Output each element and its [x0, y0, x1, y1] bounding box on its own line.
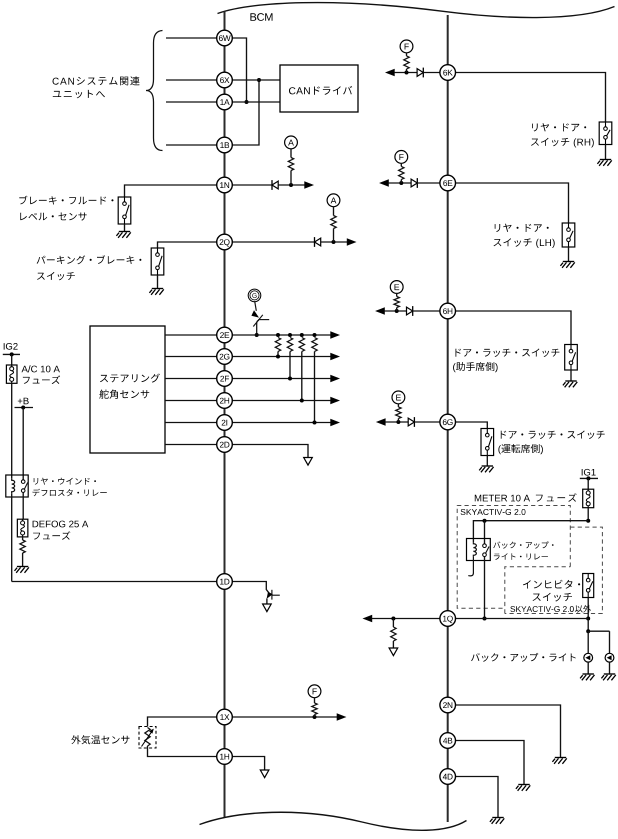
- resistor to F (1X row): [312, 703, 317, 715]
- ground under backup light 2: [601, 674, 615, 680]
- wire 1D out right: [232, 582, 270, 595]
- wire A to resistor 2Q: [333, 206, 335, 215]
- ground under 4D: [490, 818, 504, 824]
- junction 6K row: [405, 71, 409, 75]
- wire sensor to ground: [124, 224, 126, 232]
- junction backup relay switch feed: [483, 519, 487, 523]
- dashed box SKYACTIV-G 2.0 other: [505, 527, 603, 613]
- wire METER fuse to junction: [587, 508, 589, 521]
- label steering line1: [100, 374, 160, 383]
- wire arrow to diode 6E: [388, 182, 411, 184]
- open arrow 1D: [263, 604, 272, 612]
- wire resistor to 6K row: [406, 69, 408, 73]
- wire arrow to diode 6H: [384, 310, 406, 312]
- junction inhibitor/1Q row: [586, 617, 590, 621]
- label A/C fuse line1: [22, 365, 60, 372]
- pin 1N: [217, 177, 233, 193]
- rear window defroster relay box: [6, 475, 28, 497]
- wire steering sensor to 2E: [165, 334, 217, 336]
- wire 1Q net down: [587, 619, 589, 632]
- connector A (2Q row): [327, 194, 340, 207]
- ground under defogger: [15, 567, 29, 573]
- arrow out 2G row: [331, 353, 340, 360]
- pin 1Q: [440, 611, 456, 627]
- label rear door LH line2: [494, 238, 555, 248]
- wire arrow to diode 6G: [385, 421, 408, 423]
- wire diode to arrow 1N row: [278, 184, 304, 186]
- wire resistor to 6E row: [400, 180, 402, 184]
- junction relay/1Q row: [483, 617, 487, 621]
- wire: BCM right bus: [447, 15, 449, 822]
- pin 6K: [440, 65, 456, 81]
- arrow out 2F row: [331, 375, 340, 382]
- connector F (6E row): [395, 151, 408, 164]
- pin 2D: [217, 437, 233, 453]
- wire 2D row out: [232, 445, 308, 458]
- label brake fluid line2: [20, 213, 87, 221]
- wire switch to ground: [157, 275, 159, 289]
- arrow out 2Q row: [347, 239, 356, 246]
- junction 6W/1A: [245, 100, 249, 104]
- wire E to resistor 6G: [397, 404, 399, 407]
- junction IG1: [586, 476, 590, 480]
- pin 4D: [440, 769, 456, 785]
- wire G tail: [255, 302, 256, 311]
- resistor to F (6E row): [399, 166, 404, 179]
- connector A (1N row): [285, 136, 298, 149]
- backup light bulb 1: [584, 653, 593, 662]
- label rear door RH line1: [532, 123, 586, 131]
- wire 1A to CAN units (left): [166, 101, 217, 103]
- wire 2Q to parking brake switch: [158, 242, 217, 248]
- wire E to resistor 6H: [396, 293, 398, 296]
- wire grid to ground: [22, 553, 24, 567]
- wire: BCM left bus: [224, 12, 226, 819]
- relay blade (defroster): [24, 482, 28, 489]
- pin 1H: [217, 749, 233, 765]
- resistor to connector A (2Q row): [331, 216, 336, 229]
- open arrow 1H: [260, 770, 269, 778]
- wire F to resistor 6K: [406, 53, 408, 56]
- resistor to E (6G row): [396, 407, 401, 419]
- ground under rear door switch LH: [560, 262, 574, 268]
- relay contact bottom (defroster): [21, 489, 25, 493]
- pin 4B: [440, 733, 456, 749]
- diode D (6E row): [411, 178, 417, 188]
- wire: BCM bottom torn edge: [200, 812, 467, 830]
- junction 1X row: [313, 715, 317, 719]
- ground under door latch switch (driver): [479, 466, 493, 472]
- wire relay coil to 1D row: [11, 493, 13, 581]
- wire resistor to open arrow 1Q: [392, 641, 394, 648]
- node IG1 tick: [580, 477, 598, 479]
- wire resistor to 2Q row: [333, 229, 335, 243]
- dashed box SKYACTIV-G 2.0: [457, 506, 570, 609]
- wire 6E to rear door switch LH: [456, 183, 569, 223]
- junction 2E/resistor2: [288, 333, 292, 337]
- parking brake switch: [151, 248, 164, 275]
- CAN driver box U1: [280, 65, 358, 112]
- junction 1Q left branch: [391, 617, 395, 621]
- junction 2E/resistor1: [276, 333, 280, 337]
- resistor to F (6K row): [404, 56, 409, 69]
- label +B: [18, 398, 29, 405]
- junction 2E/resistor3: [300, 333, 304, 337]
- wire 1B to 6X net: [232, 80, 259, 145]
- brake fluid level sensor switch: [118, 197, 131, 224]
- junction +B: [21, 406, 25, 410]
- wire A to resistor: [290, 149, 292, 158]
- pin 6G: [440, 414, 456, 430]
- joint tick 1D: [271, 590, 273, 600]
- relay coil (defroster): [12, 479, 15, 494]
- wire F to resistor 1X: [314, 697, 316, 703]
- label rear door LH line1: [495, 224, 549, 232]
- resistor R1 (2E ladder): [275, 338, 280, 352]
- resistor R3 (2E ladder): [299, 338, 304, 352]
- junction 2Q row: [332, 240, 336, 244]
- wire bulb 2 to ground: [609, 662, 611, 674]
- wire inhibitor to 1Q row: [587, 598, 589, 619]
- label A/C fuse line2: [23, 375, 60, 384]
- resistor R2 (2E ladder): [287, 338, 292, 352]
- connector E (6H row): [390, 281, 403, 294]
- wire 1N to diode: [232, 184, 272, 186]
- resistor: defogger grid: [20, 540, 25, 553]
- diode D (6K row): [417, 68, 423, 78]
- wire 1B to CAN units (left): [166, 144, 217, 146]
- connector F (6K row): [400, 40, 413, 53]
- joint stub 1D: [272, 594, 280, 596]
- label rear door RH line2: [531, 138, 594, 148]
- wire diode to arrow 2Q row: [321, 241, 347, 243]
- arrow out 1N row: [305, 182, 314, 189]
- rear door switch LH: [562, 223, 575, 247]
- label parking brake line1: [37, 255, 142, 264]
- junction 2E/resistor4: [313, 333, 317, 337]
- diode D1 (1N row): [272, 180, 278, 190]
- node +B tick: [15, 407, 34, 409]
- ambient temperature sensor box: [139, 727, 156, 749]
- resistor to connector A (1N row): [288, 158, 293, 171]
- wire 6W to CAN units (left): [166, 37, 217, 39]
- label steering line2: [99, 390, 149, 399]
- wire 2E row out: [232, 334, 330, 336]
- relay contact top (backup): [483, 544, 487, 548]
- open arrow 2D: [304, 458, 313, 466]
- wire resistor R4 to 2I: [314, 352, 316, 423]
- wire relay switch to DEFOG fuse: [22, 492, 24, 521]
- wire 2H row out: [232, 400, 330, 402]
- pin 2Q: [217, 234, 233, 250]
- fuse A/C 10A: [6, 365, 17, 383]
- relay contact top (defroster): [21, 480, 25, 484]
- wire 4D to ground: [456, 777, 499, 818]
- junction G/2E: [255, 333, 259, 337]
- arrowhead G joint: [251, 310, 259, 317]
- BCM label: [250, 13, 272, 21]
- label METER fuse: [475, 493, 577, 502]
- wire arrow to diode 6K: [394, 72, 417, 74]
- pin 1B: [217, 137, 233, 153]
- pin 2F: [217, 371, 233, 387]
- junction 1N row: [289, 183, 293, 187]
- pin 6W: [217, 30, 233, 46]
- wire to backup light 2 down: [609, 631, 611, 653]
- wire junction to resistor 1Q: [392, 619, 394, 628]
- door latch switch (driver): [481, 429, 494, 456]
- arrow out 2I row: [331, 419, 340, 426]
- pin 2E: [217, 327, 233, 343]
- arrowhead 1D joint: [267, 592, 273, 599]
- junction IG2: [10, 352, 14, 356]
- wire 2N to ground: [456, 705, 561, 758]
- wire 1A to CAN driver: [232, 101, 280, 103]
- label brake fluid line1: [19, 196, 113, 205]
- wire to backup light 2: [588, 630, 609, 632]
- wire resistor R3 to 2H: [301, 352, 303, 401]
- wire 1Q right: [456, 618, 589, 620]
- steering angle sensor box: [90, 326, 165, 453]
- joint stub G: [258, 319, 269, 321]
- pin 2H: [217, 393, 233, 409]
- wire diode to pin 6H: [413, 310, 440, 312]
- ground under brake fluid sensor: [116, 232, 130, 238]
- label DEFOG fuse line1: [33, 521, 89, 528]
- wire resistor to 1N row: [290, 171, 292, 186]
- wire 1D row horizontal: [12, 581, 217, 583]
- wire IG2 to fuse: [11, 354, 13, 365]
- wire 1Q left: [372, 618, 440, 620]
- arrow out 2E row: [331, 332, 340, 339]
- arrow out 6E row (left): [380, 180, 389, 187]
- pin 2G: [217, 349, 233, 365]
- wire to backup light 1: [587, 631, 589, 653]
- wire 1D joint to arrow: [266, 599, 268, 605]
- wire IG1 to METER fuse: [587, 478, 589, 489]
- label ambient sensor: [71, 735, 129, 744]
- fuse METER 10A: [583, 489, 594, 508]
- wire 6X to CAN units (left): [166, 79, 217, 81]
- arrow out 2H row: [331, 397, 340, 404]
- resistor R4 (2E ladder): [312, 338, 317, 352]
- label door latch driver line1: [501, 431, 605, 439]
- wire sensor to 1H: [148, 746, 217, 757]
- pin 6E: [440, 175, 456, 191]
- arrow out 6K row (left): [386, 69, 395, 76]
- label backup relay line1: [493, 541, 553, 548]
- wire 4B to ground: [456, 741, 525, 785]
- wire steering sensor to 2F: [165, 378, 217, 380]
- label IG2: [4, 343, 18, 350]
- wire 2G row out: [232, 356, 330, 358]
- wire bulb 1 to ground: [587, 662, 589, 674]
- label inhibitor line1: [523, 580, 580, 589]
- diode D (6H row): [407, 306, 413, 316]
- wire 1N to brake fluid sensor: [125, 185, 217, 197]
- door latch switch (passenger): [565, 345, 578, 371]
- backup light relay box: [467, 539, 491, 561]
- wire latch passenger to ground: [570, 370, 572, 381]
- label parking brake line2: [37, 272, 75, 280]
- wire switch RH to ground: [605, 145, 607, 160]
- connector G: [248, 289, 261, 302]
- label door latch driver line2: [498, 444, 543, 454]
- junction backup light branch: [586, 629, 590, 633]
- pin 6H: [440, 303, 456, 319]
- junction resistor R2/2F: [288, 377, 292, 381]
- junction 1B/6X: [257, 78, 261, 82]
- wire resistor R2 to 2F: [289, 352, 291, 379]
- inhibitor switch box: [583, 574, 594, 598]
- wire resistor R1 to 2G: [277, 352, 279, 357]
- wire: BCM top torn edge: [218, 3, 615, 18]
- wire fuse to backup relay: [473, 521, 588, 543]
- ground under 4B: [516, 785, 530, 791]
- connector F (1X row): [308, 685, 321, 698]
- label SKYACTIV-G 2.0 igai: [510, 605, 591, 613]
- label door latch passenger line2: [453, 362, 498, 372]
- arrow out 1Q row (left): [363, 615, 372, 622]
- ground under 2N: [552, 758, 566, 764]
- ground under door latch switch (passenger): [563, 381, 577, 387]
- wire resistor to 6H row: [396, 308, 398, 312]
- resistor to E (6H row): [394, 297, 399, 308]
- node IG2 tick: [3, 353, 20, 355]
- junction 6H row: [395, 309, 399, 313]
- thermistor arrow: [142, 729, 154, 747]
- wire 6H to door latch switch (passenger): [456, 311, 572, 345]
- pin 1X: [217, 709, 233, 725]
- junction 6G row: [396, 420, 400, 424]
- ground under parking brake switch: [149, 289, 163, 295]
- relay blade (backup): [486, 547, 490, 554]
- label SKYACTIV-G 2.0: [461, 509, 526, 515]
- wire fuse to relay coil: [11, 383, 13, 478]
- wire switch LH to ground: [568, 247, 570, 262]
- label CAN system units line2: [53, 90, 105, 98]
- brace: CAN system units: [146, 31, 163, 151]
- connector E (6G row): [392, 391, 405, 404]
- wire F to resistor 6E: [400, 163, 402, 166]
- wire relay switch to 1Q row: [484, 557, 486, 619]
- wire diode to pin 6E: [417, 182, 440, 184]
- junction fuse output: [586, 519, 590, 523]
- wire +B to relay switch: [22, 408, 24, 480]
- wire diode to pin 6K: [423, 72, 440, 74]
- arrow out 6G row (left): [377, 419, 386, 426]
- label IG1: [582, 469, 596, 476]
- pin 2I: [217, 415, 233, 431]
- joint slash G: [253, 315, 262, 327]
- wire steering sensor to 2I: [165, 422, 217, 424]
- ground under rear door switch RH: [597, 160, 611, 166]
- wire 1X out right: [232, 716, 337, 718]
- wire steering sensor to 2D: [165, 444, 217, 446]
- label inhibitor line2: [533, 593, 573, 602]
- diode D (6G row): [408, 417, 414, 427]
- pin 1D: [217, 574, 233, 590]
- label backup relay line2: [494, 553, 548, 560]
- relay contact bottom (backup): [483, 553, 487, 557]
- label CAN system units line1: [53, 76, 140, 85]
- ground under backup light 1: [580, 674, 594, 680]
- wire backup coil tail: [468, 557, 473, 576]
- junction 6E row: [399, 181, 403, 185]
- junction resistor R3/2H: [300, 399, 304, 403]
- wire steering sensor to 2G: [165, 356, 217, 358]
- label defroster relay line1: [34, 478, 96, 485]
- wire resistor to 6G row: [397, 419, 399, 423]
- wire 1H out right: [232, 757, 264, 771]
- open arrow 1Q branch: [389, 648, 398, 656]
- pin 1A: [217, 94, 233, 110]
- label door latch passenger line1: [455, 349, 559, 357]
- arrow out 6H row (left): [376, 308, 385, 315]
- wire resistor to 1X row: [314, 715, 316, 718]
- wire 6W to 1A net: [232, 38, 246, 102]
- arrow out 1X row: [337, 714, 346, 721]
- wire DEFOG fuse to defogger grid: [22, 537, 24, 540]
- wire junction to relay switch: [484, 521, 486, 544]
- label CAN driver: [289, 86, 352, 95]
- wire latch driver to ground: [486, 456, 488, 467]
- wire 2I row out: [232, 422, 330, 424]
- wire 6X to CAN driver: [232, 79, 280, 81]
- junction resistor R1/2G: [276, 355, 280, 359]
- label backup light: [471, 653, 576, 662]
- wire G to 2E row: [257, 320, 259, 335]
- label DEFOG fuse line2: [33, 531, 70, 540]
- relay coil (backup): [473, 542, 476, 557]
- fuse DEFOG 25A: [17, 519, 28, 537]
- wire 6K to rear door switch RH: [456, 73, 606, 123]
- wire steering sensor to 2H: [165, 400, 217, 402]
- pin 6X: [217, 72, 233, 88]
- diode D2 (2Q row): [315, 237, 321, 247]
- wire diode to pin 6G: [414, 421, 440, 423]
- thermistor: ambient sensor: [145, 728, 150, 747]
- wire 1X to ambient sensor: [148, 717, 217, 727]
- junction resistor R4/2I: [313, 421, 317, 425]
- resistor (1Q branch): [391, 627, 396, 641]
- wire 2Q to diode: [232, 241, 314, 243]
- rear door switch RH: [599, 122, 612, 145]
- backup light bulb 2: [605, 653, 614, 662]
- wire 2F row out: [232, 378, 330, 380]
- pin 2N: [440, 697, 456, 713]
- label defroster relay line2: [33, 489, 107, 497]
- wire 6G to door latch switch (driver): [456, 422, 488, 429]
